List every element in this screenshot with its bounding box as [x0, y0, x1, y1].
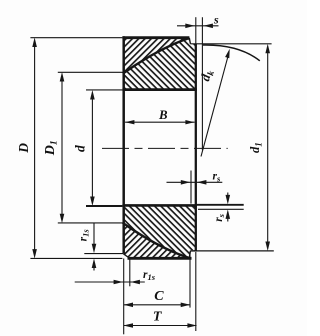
dimension B line	[125, 120, 194, 124]
svg-text:T: T	[153, 310, 163, 325]
dimension d1 line	[265, 44, 270, 251]
svg-text:d: d	[73, 145, 88, 152]
extension line d top	[86, 89, 122, 91]
extension line rs chamfer vertical	[190, 171, 192, 204]
extension line d1 bottom	[194, 250, 274, 252]
svg-text:B: B	[158, 108, 168, 122]
bottom block top-right chamfer	[193, 205, 197, 209]
leader line dk	[201, 49, 230, 157]
dimension rs horizontal	[167, 180, 223, 185]
bottom block bottom-left chamfer	[123, 254, 129, 258]
top block sphere curve	[123, 38, 190, 74]
bottom block d1 face	[190, 250, 197, 252]
extension line C right	[189, 252, 191, 308]
top block top edge (D surface)	[122, 36, 189, 39]
extension line s right / sphere pole line	[201, 17, 203, 150]
bottom block sphere curve	[123, 223, 190, 258]
extension line rs chamfer horizontal	[198, 208, 244, 210]
top block bottom edge (bore d surface)	[122, 88, 196, 91]
washer section: top housing piece hatch	[123, 38, 190, 74]
extension line bottom washer top face right	[197, 204, 244, 206]
dimension D1 line	[60, 72, 65, 223]
washer section: bottom housing piece hatch	[123, 223, 190, 258]
dimension D line	[32, 38, 37, 259]
extension line bore below	[123, 259, 125, 335]
svg-text:C: C	[154, 289, 164, 304]
svg-text:D: D	[16, 143, 31, 154]
extension line d bottom	[86, 205, 122, 207]
extension line d1 top	[190, 43, 271, 45]
dimension C line	[124, 303, 191, 308]
centerline (axis, dash-dot)	[102, 147, 228, 149]
bore left edge line	[122, 36, 125, 254]
right face line of washers	[195, 17, 197, 44]
dimension d line	[90, 90, 95, 206]
washer section: top shaft piece hatch	[123, 38, 197, 90]
top block corner step	[189, 38, 190, 44]
bottom block corner step	[189, 251, 190, 258]
bottom block bottom edge	[128, 257, 192, 260]
svg-text:s: s	[213, 13, 219, 27]
washer section: bottom shaft piece hatch	[123, 207, 197, 258]
dimension r1s left vertical	[92, 224, 97, 271]
dimension r1s horizontal	[75, 280, 145, 285]
extension line D top	[30, 37, 122, 39]
sphere outline arc dk	[203, 45, 260, 61]
extension line r1s chamfer left	[84, 253, 123, 255]
bottom block top face edge	[122, 204, 196, 207]
extension line D1 bottom	[58, 222, 123, 224]
dimension s line	[177, 24, 219, 29]
dimension rs vertical	[226, 193, 231, 222]
extension line D1 top	[58, 71, 123, 73]
extension line r1s chamfer below	[129, 259, 131, 287]
extension line D bottom	[30, 257, 122, 259]
dimension T line	[124, 323, 197, 328]
